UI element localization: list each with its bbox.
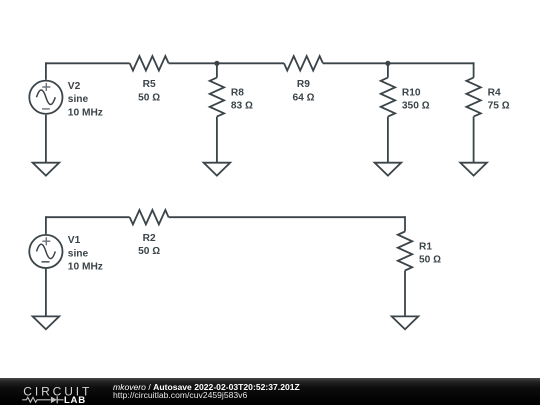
resistor R1 bbox=[398, 232, 441, 271]
svg-text:10 MHz: 10 MHz bbox=[68, 107, 103, 118]
node A junction dot bbox=[214, 61, 219, 66]
ground under R4 bbox=[460, 163, 487, 176]
wire: R4 to ground bbox=[473, 117, 475, 163]
wire: R5 to node A bbox=[169, 62, 217, 64]
node B junction dot bbox=[385, 61, 390, 66]
wire: node B to R4 corner bbox=[388, 62, 474, 64]
wire: V2 top lead bbox=[45, 62, 47, 79]
wire: node B to R10 lead bbox=[387, 63, 389, 77]
wire: corner down to R1 lead bbox=[404, 216, 406, 231]
svg-text:R4: R4 bbox=[488, 88, 501, 99]
svg-text:sine: sine bbox=[68, 248, 89, 259]
svg-text:R2: R2 bbox=[143, 233, 156, 244]
wire: R9 to node B bbox=[323, 62, 388, 64]
resistor R8 bbox=[210, 78, 253, 117]
CircuitLab logo wordmark bbox=[0, 378, 110, 405]
svg-text:LAB: LAB bbox=[64, 395, 86, 405]
voltage source V1 bbox=[29, 235, 103, 273]
ground under R10 bbox=[375, 163, 402, 176]
wire: R8 to ground bbox=[216, 117, 218, 163]
wire: V2 to ground bbox=[45, 115, 47, 163]
ground under R1 bbox=[392, 316, 419, 329]
ground under R8 bbox=[204, 163, 231, 176]
footer bar bbox=[0, 378, 540, 405]
wire: node A to R9 bbox=[217, 62, 284, 64]
ground under V2 bbox=[33, 163, 60, 176]
svg-text:R5: R5 bbox=[143, 79, 156, 90]
resistor R5 bbox=[130, 56, 169, 103]
wire: R2 to R1 corner bbox=[169, 216, 405, 218]
resistor R10 bbox=[381, 78, 430, 117]
svg-text:V2: V2 bbox=[68, 81, 81, 92]
resistor R9 bbox=[284, 56, 323, 103]
wire: R10 to ground bbox=[387, 117, 389, 163]
svg-text:64 Ω: 64 Ω bbox=[292, 92, 314, 103]
svg-text:83 Ω: 83 Ω bbox=[231, 100, 253, 111]
svg-text:350 Ω: 350 Ω bbox=[402, 100, 430, 111]
wire: R1 to ground bbox=[404, 271, 406, 317]
svg-text:50 Ω: 50 Ω bbox=[138, 92, 160, 103]
wire bottom: V1 corner to R2 bbox=[46, 216, 130, 218]
wire: V1 to ground bbox=[45, 269, 47, 316]
resistor R4 bbox=[466, 78, 509, 117]
svg-text:75 Ω: 75 Ω bbox=[488, 100, 510, 111]
svg-text:R1: R1 bbox=[419, 242, 432, 253]
svg-text:50 Ω: 50 Ω bbox=[138, 246, 160, 257]
resistor R2 bbox=[130, 210, 169, 257]
wire top: V2 corner to R5 bbox=[46, 62, 130, 64]
wire: V1 top lead bbox=[45, 216, 47, 234]
svg-text:10 MHz: 10 MHz bbox=[68, 262, 103, 273]
svg-text:R8: R8 bbox=[231, 88, 244, 99]
svg-text:50 Ω: 50 Ω bbox=[419, 255, 441, 266]
svg-text:V1: V1 bbox=[68, 235, 81, 246]
svg-text:sine: sine bbox=[68, 94, 89, 105]
ground under V1 bbox=[33, 316, 60, 329]
svg-text:R9: R9 bbox=[297, 79, 310, 90]
voltage source V2 bbox=[29, 81, 103, 119]
wire: corner down to R4 lead bbox=[473, 62, 475, 77]
svg-text:R10: R10 bbox=[402, 88, 421, 99]
wire: node A to R8 lead bbox=[216, 63, 218, 77]
logo resistor-diode glyph bbox=[22, 396, 63, 403]
